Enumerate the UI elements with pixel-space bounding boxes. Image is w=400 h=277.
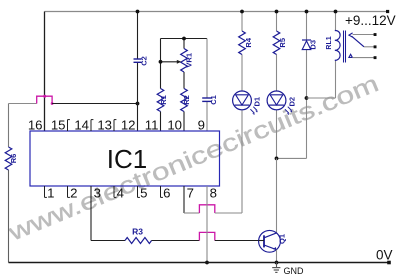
wire 0V ground rail bbox=[9, 262, 390, 264]
wire hop pin7 over pin8 bbox=[199, 205, 214, 213]
relay core bbox=[343, 31, 345, 63]
node C2/pin12 junction bbox=[136, 102, 140, 106]
pin 6 stub bbox=[160, 186, 162, 197]
pin 13 stub bbox=[113, 120, 115, 131]
wiper arrow VR1 bbox=[159, 60, 182, 64]
svg-text:R1: R1 bbox=[159, 95, 168, 105]
svg-text:4: 4 bbox=[117, 186, 124, 201]
wire pin3 to R3 bbox=[90, 186, 92, 241]
relay RL1 coil bbox=[326, 30, 340, 60]
svg-text:10: 10 bbox=[167, 118, 182, 133]
wire pin7 horizontal bbox=[184, 212, 199, 214]
node rail x relay bbox=[334, 10, 338, 14]
resistor R2 bbox=[181, 89, 192, 112]
svg-text:IC1: IC1 bbox=[107, 144, 147, 174]
svg-text:1: 1 bbox=[47, 186, 54, 201]
potentiometer VR1 bbox=[181, 49, 194, 72]
LED D1 bbox=[233, 91, 262, 115]
LED D2 bbox=[267, 91, 297, 115]
terminal 0V bbox=[387, 261, 391, 265]
svg-text:14: 14 bbox=[74, 118, 89, 133]
capacitor C1 bbox=[202, 95, 218, 105]
wire hop R3 over pin8 bbox=[199, 232, 214, 240]
svg-text:D3: D3 bbox=[308, 40, 317, 50]
node wiper tap bbox=[159, 60, 163, 64]
wire R5 branch bbox=[276, 12, 278, 32]
node rail x R5 bbox=[275, 10, 279, 14]
pin 1 stub bbox=[44, 186, 46, 197]
svg-text:15: 15 bbox=[51, 118, 66, 133]
svg-text:R6: R6 bbox=[9, 154, 18, 164]
wire pin7 down bbox=[183, 186, 185, 213]
svg-text:13: 13 bbox=[97, 118, 112, 133]
svg-text:11: 11 bbox=[145, 118, 159, 133]
wire left branch vertical (R6) bbox=[8, 104, 10, 148]
transistor Q1 bbox=[259, 230, 287, 252]
pin 4 stub bbox=[113, 186, 115, 197]
wire box right edge / C1 leads bbox=[206, 39, 208, 99]
wire hop over pin16 wire bbox=[37, 96, 52, 103]
svg-text:C2: C2 bbox=[139, 56, 148, 66]
node VR1 top bbox=[182, 37, 186, 41]
svg-text:VR1: VR1 bbox=[185, 53, 194, 68]
wire divider box top edge bbox=[161, 38, 208, 40]
wire VR1 stub and R2 leads bbox=[183, 39, 185, 49]
svg-text:0V: 0V bbox=[376, 248, 393, 263]
wire D3 branch bbox=[306, 12, 308, 41]
svg-text:GND: GND bbox=[284, 266, 305, 276]
svg-text:2: 2 bbox=[70, 186, 77, 201]
svg-text:R4: R4 bbox=[244, 37, 253, 47]
node rail x D3 bbox=[305, 10, 309, 14]
node pin8 x rail bbox=[205, 261, 209, 265]
terminal +V bbox=[386, 10, 389, 13]
wire top supply rail bbox=[45, 11, 388, 13]
svg-text:7: 7 bbox=[187, 186, 194, 201]
svg-text:3: 3 bbox=[94, 186, 101, 201]
pin 15 stub bbox=[67, 120, 69, 131]
relay terminals bbox=[374, 33, 377, 36]
IC1 box bbox=[30, 131, 220, 186]
wire C2 branch from rail bbox=[137, 12, 139, 60]
svg-text:R5: R5 bbox=[278, 38, 287, 48]
wire relay coil leads bbox=[335, 12, 337, 31]
wire R3 to base bbox=[152, 240, 200, 242]
pin 2 stub bbox=[67, 186, 69, 197]
wire rail to pin16 bbox=[44, 12, 46, 132]
wire base lead bbox=[259, 240, 264, 242]
svg-text:6: 6 bbox=[163, 186, 170, 201]
wire pin8 to ground rail bbox=[206, 186, 208, 263]
svg-text:C1: C1 bbox=[209, 95, 218, 105]
resistor R4 bbox=[239, 31, 253, 54]
svg-text:8: 8 bbox=[210, 186, 217, 201]
svg-text:RL1: RL1 bbox=[326, 36, 333, 49]
svg-text:R3: R3 bbox=[132, 226, 143, 236]
node rail x C2 bbox=[136, 10, 140, 14]
wire R4 branch bbox=[241, 12, 243, 32]
diode D3 bbox=[302, 40, 317, 50]
wire hop to C2 node bbox=[52, 103, 137, 105]
svg-text:Q1: Q1 bbox=[278, 234, 287, 244]
node rail x R4 bbox=[240, 10, 244, 14]
capacitor C2 bbox=[134, 56, 149, 66]
pin 5 stub bbox=[137, 186, 139, 197]
wire emitter to rail bbox=[276, 250, 278, 263]
ground symbol bbox=[272, 263, 280, 273]
wire collector drop bbox=[276, 158, 278, 233]
svg-text:D1: D1 bbox=[252, 97, 261, 107]
wire box left edge / R1 leads bbox=[160, 39, 162, 89]
svg-text:R2: R2 bbox=[182, 95, 191, 105]
wire relay bottom to D3 bbox=[307, 97, 336, 99]
svg-text:12: 12 bbox=[121, 118, 136, 133]
wire D2/D3 join bbox=[277, 157, 307, 159]
node D3 x relay bottom bbox=[305, 96, 309, 100]
pin 14 stub bbox=[90, 120, 92, 131]
resistor R1 bbox=[157, 89, 168, 112]
resistor R5 bbox=[273, 31, 287, 54]
resistor R3 bbox=[125, 226, 152, 243]
svg-text:16: 16 bbox=[28, 118, 43, 133]
svg-text:+9...12V: +9...12V bbox=[345, 13, 396, 28]
resistor R6 bbox=[5, 147, 18, 170]
svg-text:D2: D2 bbox=[288, 97, 297, 107]
node emitter x rail bbox=[275, 261, 279, 265]
relay contacts bbox=[349, 33, 377, 59]
node collector junction bbox=[275, 157, 279, 161]
svg-text:9: 9 bbox=[198, 118, 205, 133]
wire R6 top horizontal bbox=[9, 103, 37, 105]
svg-text:www.electronicecircuits.com: www.electronicecircuits.com bbox=[4, 69, 383, 246]
svg-text:5: 5 bbox=[140, 186, 147, 201]
